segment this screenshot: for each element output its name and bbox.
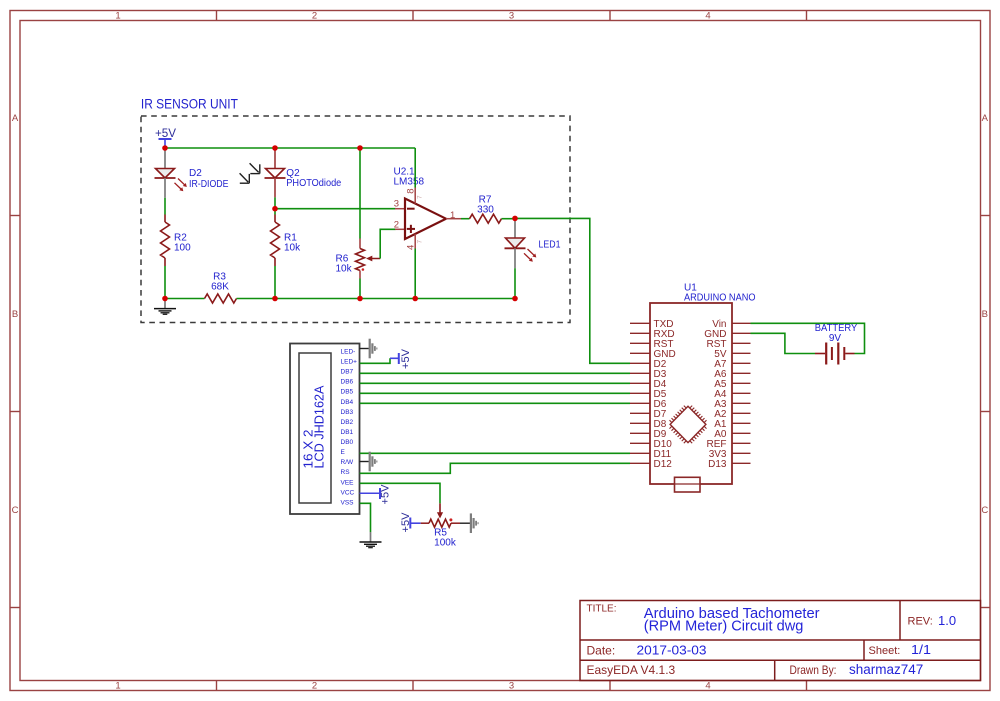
node junction ground rail / op-amp pin4: [412, 296, 418, 302]
svg-text:IR SENSOR UNIT: IR SENSOR UNIT: [141, 96, 238, 111]
wire ground rail left: [165, 298, 205, 300]
wire Q2 node to op-amp pin3: [275, 208, 396, 210]
wire E to D11: [360, 452, 631, 454]
photodiode Q2: [265, 148, 286, 197]
svg-text:REV:: REV:: [908, 616, 933, 628]
svg-text:TITLE:: TITLE:: [587, 604, 617, 615]
svg-text:(RPM Meter) Circuit dwg: (RPM Meter) Circuit dwg: [644, 619, 804, 635]
svg-text:E: E: [341, 449, 346, 456]
svg-text:C: C: [12, 505, 19, 516]
ground symbol (arrow) at R/W: [369, 452, 378, 472]
wire op-amp pin4 to ground rail: [414, 249, 416, 299]
svg-text:8: 8: [406, 189, 417, 194]
svg-text:DB2: DB2: [341, 419, 354, 426]
LCD module body: [290, 344, 360, 515]
wire DB5 to D5: [360, 392, 631, 394]
svg-text:4: 4: [705, 681, 710, 692]
wire LED1 node to Arduino D2: [515, 218, 630, 363]
wire VSS to ground: [360, 503, 371, 532]
node junction ground rail / LED1: [512, 296, 518, 302]
wire Q2 to node: [274, 197, 276, 214]
svg-text:R/W: R/W: [341, 459, 355, 466]
node junction +5V / R6 top: [357, 145, 363, 151]
resistor R2: [161, 215, 170, 267]
svg-text:100k: 100k: [434, 537, 457, 548]
svg-text:3: 3: [509, 11, 514, 22]
power +5V netflag at VCC: [380, 484, 392, 505]
wire DB4 to D6: [360, 402, 631, 404]
svg-text:DB0: DB0: [341, 439, 354, 446]
wire LED+ to +5V: [360, 358, 391, 363]
ground symbol (earth, IR unit): [154, 299, 176, 315]
title text main title: [644, 606, 820, 635]
svg-text:D2: D2: [189, 168, 202, 179]
svg-text:DB3: DB3: [341, 409, 354, 416]
svg-text:100: 100: [174, 243, 191, 254]
svg-text:IR-DIODE: IR-DIODE: [189, 179, 229, 190]
svg-text:10k: 10k: [336, 264, 353, 275]
wire VEE to R5 wiper: [360, 483, 441, 503]
IC U1 ARDUINO NANO body: [650, 303, 732, 484]
svg-text:VSS: VSS: [341, 499, 355, 506]
svg-text:2: 2: [394, 219, 399, 230]
battery 9V symbol: [815, 343, 855, 365]
svg-text:3: 3: [509, 681, 514, 692]
wire +5V rail to R6: [359, 148, 361, 239]
power +5V netflag at R5: [400, 512, 421, 533]
node junction Q2 / R1 / op-amp pin3: [272, 206, 278, 212]
svg-text:LED1: LED1: [539, 239, 561, 250]
svg-text:sharmaz747: sharmaz747: [849, 662, 923, 677]
U1 chip glyph: [670, 406, 707, 444]
svg-text:VCC: VCC: [341, 489, 355, 496]
Q2 incident light arrows: [240, 163, 260, 183]
wire DB6 to D4: [360, 382, 631, 384]
svg-text:B: B: [12, 309, 18, 320]
svg-text:DB5: DB5: [341, 389, 354, 396]
potentiometer R5: [421, 518, 460, 527]
wire R7 to LED1 node: [502, 218, 516, 220]
svg-text:330: 330: [477, 205, 494, 216]
ground symbol (arrow) at R5: [470, 513, 479, 533]
wire DB7 to D3: [360, 372, 631, 374]
title block: [580, 601, 981, 681]
svg-text:10k: 10k: [284, 243, 301, 254]
svg-text:ARDUINO NANO: ARDUINO NANO: [684, 293, 756, 304]
power +5V netflag (IR unit): [155, 126, 176, 146]
svg-text:+5V: +5V: [400, 348, 412, 369]
svg-text:R7: R7: [479, 194, 492, 205]
svg-text:+5V: +5V: [155, 126, 176, 140]
svg-text:EasyEDA V4.1.3: EasyEDA V4.1.3: [587, 663, 676, 677]
wire LED1 to ground rail: [514, 268, 516, 298]
svg-text:LCD JHD162A: LCD JHD162A: [313, 385, 327, 469]
svg-text:A: A: [982, 113, 989, 124]
svg-text:7: 7: [417, 195, 424, 199]
resistor R7: [470, 214, 502, 223]
svg-text:+5V: +5V: [380, 484, 392, 505]
svg-text:9V: 9V: [829, 333, 842, 344]
svg-text:LM358: LM358: [394, 177, 425, 188]
svg-text:Sheet:: Sheet:: [869, 645, 901, 657]
wire ground rail right: [237, 298, 516, 300]
svg-text:VEE: VEE: [341, 479, 355, 486]
U1 right pin names: [704, 319, 727, 470]
node junction ground rail / R1: [272, 296, 278, 302]
svg-text:4: 4: [705, 11, 710, 22]
svg-text:DB7: DB7: [341, 369, 354, 376]
title text EasyEDA row: [587, 662, 924, 677]
title text REV: [908, 613, 957, 628]
wire R6 to ground rail: [359, 279, 361, 299]
R5 wiper arrow: [437, 503, 443, 518]
node junction +5V / D2 anode: [162, 145, 168, 151]
svg-text:1: 1: [115, 11, 120, 22]
svg-text:RS: RS: [341, 469, 351, 476]
wire D2 to R2: [164, 198, 166, 215]
wire RS to D12: [360, 463, 631, 473]
wire R/W to ground: [360, 461, 369, 463]
wire R1 to ground rail: [274, 266, 276, 299]
wire GND to battery -: [751, 333, 816, 353]
title text Date row: [587, 643, 932, 658]
svg-text:D12: D12: [654, 459, 673, 470]
svg-text:PHOTOdiode: PHOTOdiode: [286, 178, 341, 189]
svg-text:1: 1: [115, 681, 120, 692]
svg-text:B: B: [982, 309, 988, 320]
svg-text:2017-03-03: 2017-03-03: [637, 643, 707, 658]
svg-text:Drawn By:: Drawn By:: [790, 663, 837, 677]
svg-text:A: A: [12, 113, 19, 124]
node junction ground rail / R2 / GND: [162, 296, 168, 302]
svg-text:C: C: [981, 505, 988, 516]
wire op-amp out to R7: [461, 218, 470, 220]
svg-text:1/1: 1/1: [911, 643, 931, 657]
svg-text:DB4: DB4: [341, 399, 354, 406]
svg-text:Date:: Date:: [587, 643, 616, 657]
svg-text:1.0: 1.0: [938, 613, 956, 628]
wire top +5V rail: [165, 147, 415, 149]
op-amp U2.1 LM358: [395, 188, 461, 249]
diode D2 (IR-DIODE): [155, 148, 187, 198]
wire op-amp pin8 to +5V rail: [414, 148, 416, 188]
svg-text:2: 2: [312, 11, 317, 22]
svg-text:7: 7: [417, 240, 424, 244]
LED LED1: [505, 218, 537, 268]
LCD pin names: [341, 349, 358, 507]
resistor R3: [205, 294, 237, 303]
IR sensor unit dashed box: [141, 116, 570, 323]
U1 left pins: [630, 323, 650, 463]
power +5V netflag at LED+: [390, 348, 412, 369]
node junction +5V / Q2 anode: [272, 145, 278, 151]
svg-text:D13: D13: [708, 459, 727, 470]
U1 usb connector rect: [675, 477, 701, 492]
wire VCC to +5V: [360, 492, 381, 494]
node junction ground rail / R6: [357, 296, 363, 302]
resistor R1: [271, 215, 280, 267]
U1 left pin names: [654, 319, 676, 470]
svg-text:DB6: DB6: [341, 379, 354, 386]
wire LED- to ground: [360, 348, 369, 350]
svg-text:LED+: LED+: [341, 359, 358, 366]
svg-text:1: 1: [450, 210, 455, 221]
node junction R7 / LED1 / D2 net: [512, 216, 518, 222]
svg-text:DB1: DB1: [341, 429, 354, 436]
svg-text:68K: 68K: [211, 281, 229, 292]
svg-text:3: 3: [394, 199, 399, 210]
potentiometer R6: [356, 239, 381, 279]
wire R2 to ground rail: [164, 266, 166, 299]
U1 right pins: [732, 323, 751, 463]
svg-text:LED-: LED-: [341, 349, 356, 356]
wire R5 to ground: [460, 522, 470, 524]
ground symbol (earth) at VSS: [360, 532, 382, 548]
wire Vin to battery +: [751, 323, 865, 353]
ground symbol (arrow) at LED-: [369, 339, 378, 359]
wire R6 wiper to op-amp pin2: [380, 229, 395, 258]
svg-text:2: 2: [312, 681, 317, 692]
